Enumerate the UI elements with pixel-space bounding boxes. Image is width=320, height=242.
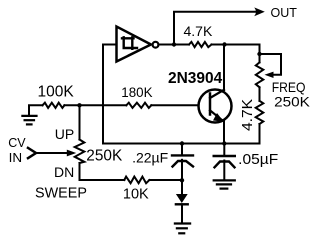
svg-text:100K: 100K [38, 84, 75, 101]
svg-text:CV: CV [8, 136, 26, 150]
ground (below diode) [175, 222, 190, 224]
node: junction dot collector [222, 42, 226, 46]
ground (left of 100K) [29, 105, 43, 115]
transistor 2N3904 [199, 90, 232, 123]
wire: 4.7K to rail [259, 124, 261, 144]
resistor 4.7K (top) zigzag [189, 42, 212, 47]
svg-text:.22µF: .22µF [132, 149, 168, 165]
wire: cap rail [103, 143, 260, 145]
CV IN connector chevron [28, 148, 36, 158]
wire: between pot and 4.7K [259, 87, 261, 101]
wire: collector drop [223, 45, 225, 91]
wiper arrow sweep [36, 152, 68, 154]
svg-text:4.7K: 4.7K [184, 23, 213, 39]
potentiometer sweep 250K vertical [79, 105, 81, 139]
svg-text:2N3904: 2N3904 [168, 70, 223, 87]
diode [181, 180, 183, 194]
svg-text:UP: UP [55, 126, 74, 142]
node: dot pot top right [257, 52, 261, 56]
wire: 10K to diode node [149, 179, 182, 181]
node: dot at pot top [77, 103, 81, 107]
wire: right column top [259, 45, 261, 63]
capacitor .22uF [181, 144, 183, 155]
node: junction dot output/OUT riser [172, 42, 176, 46]
svg-text:10K: 10K [123, 187, 149, 203]
wire: inverter output to right column [159, 44, 190, 46]
inverter U1 (Schmitt trigger) triangle [117, 27, 152, 62]
arrowhead OUT [254, 7, 265, 16]
svg-text:180K: 180K [121, 84, 153, 100]
svg-text:4.7K: 4.7K [239, 99, 256, 131]
potentiometer FREQ 250K [256, 62, 263, 87]
wire: 100K to 180K row [64, 104, 126, 106]
capacitor .05uF [223, 144, 225, 155]
svg-text:FREQ: FREQ [272, 79, 306, 95]
wire: feedback vertical from inverter input down to cap rail [102, 45, 104, 144]
resistor 4.7K (vertical) [256, 101, 264, 124]
node: dot 10K/diode [180, 178, 184, 182]
svg-text:SWEEP: SWEEP [35, 185, 87, 201]
svg-text:250K: 250K [274, 94, 310, 110]
node: dot cap .22 [180, 141, 184, 145]
svg-text:OUT: OUT [271, 6, 298, 20]
inverter output bubble [153, 42, 159, 48]
ground (below C2) [214, 179, 235, 181]
svg-text:.05µF: .05µF [238, 151, 278, 168]
wire: emitter drop [223, 122, 225, 144]
wiper bracket FREQ [260, 54, 282, 75]
svg-text:250K: 250K [86, 148, 123, 165]
wire: after 4.7K to right column corner [212, 44, 260, 46]
resistor 180K [126, 103, 151, 108]
wire: 180K to base [151, 104, 198, 106]
svg-text:DN: DN [54, 164, 74, 180]
svg-text:IN: IN [9, 151, 23, 165]
wire: inverter input horizontal [103, 44, 116, 46]
node: dot emitter/cap .05 [222, 141, 226, 145]
resistor 100K [43, 103, 65, 108]
resistor 10K [124, 177, 149, 184]
hysteresis symbol inside U1 [122, 37, 137, 49]
wire: riser to OUT [174, 12, 256, 45]
